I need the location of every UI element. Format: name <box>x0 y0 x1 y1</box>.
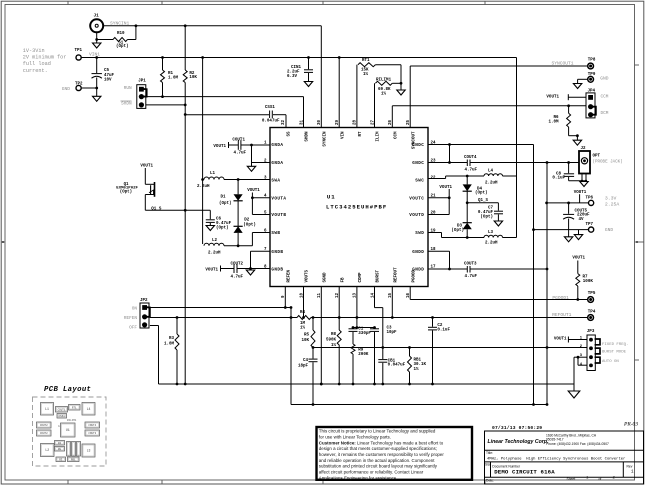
svg-text:REFOUT1: REFOUT1 <box>552 312 572 318</box>
svg-text:30.1K: 30.1K <box>414 363 427 367</box>
svg-text:0.47uF: 0.47uF <box>478 211 494 215</box>
svg-text:2V minimum for: 2V minimum for <box>23 55 67 61</box>
svg-text:L1: L1 <box>210 172 216 176</box>
svg-text:FB: FB <box>341 277 345 283</box>
svg-text:L3: L3 <box>87 449 91 453</box>
svg-text:C2: C2 <box>437 324 443 328</box>
svg-text:1V-3Vin: 1V-3Vin <box>23 48 45 54</box>
svg-text:4V: 4V <box>579 218 585 222</box>
svg-text:4.7uF: 4.7uF <box>465 169 478 173</box>
svg-text:R10: R10 <box>117 32 125 36</box>
svg-text:JP3: JP3 <box>587 330 595 334</box>
svg-text:1: 1 <box>631 471 634 475</box>
svg-text:COUT4: COUT4 <box>88 424 96 427</box>
svg-text:SHDN: SHDN <box>306 131 310 142</box>
svg-text:1%: 1% <box>300 327 306 331</box>
svg-text:for use with Linear Technology: for use with Linear Technology parts. <box>319 434 391 439</box>
svg-text:0.047uF: 0.047uF <box>388 364 406 368</box>
svg-text:C5: C5 <box>104 69 110 73</box>
svg-text:J2: J2 <box>581 147 587 151</box>
svg-text:SWA: SWA <box>271 179 280 184</box>
svg-text:(Opt): (Opt) <box>243 222 256 227</box>
svg-text:GNDB: GNDB <box>271 250 283 255</box>
svg-text:JP4: JP4 <box>588 89 596 93</box>
svg-text:CSS1: CSS1 <box>265 106 276 110</box>
svg-text:R8: R8 <box>331 333 337 337</box>
svg-text:VOUT1: VOUT1 <box>205 269 218 273</box>
svg-text:2.25A: 2.25A <box>605 201 620 207</box>
svg-text:4.7uF: 4.7uF <box>465 275 478 279</box>
svg-text:8: 8 <box>264 266 267 270</box>
svg-text:COMP: COMP <box>359 272 363 283</box>
svg-text:(Opt): (Opt) <box>480 214 493 219</box>
svg-text:CCM: CCM <box>601 95 609 100</box>
svg-text:FIXED FREQ.: FIXED FREQ. <box>602 343 628 347</box>
svg-text:affect circuit performance or: affect circuit performance or reliabilit… <box>319 470 424 475</box>
svg-text:GND: GND <box>605 227 614 233</box>
svg-text:TP1: TP1 <box>75 49 83 53</box>
svg-text:VOUTC: VOUTC <box>409 197 424 202</box>
svg-text:full load: full load <box>23 61 51 67</box>
svg-text:L1: L1 <box>45 407 49 411</box>
svg-text:RB1: RB1 <box>71 458 76 461</box>
svg-text:SWB: SWB <box>271 231 280 236</box>
svg-text:VOUT1: VOUT1 <box>554 337 567 341</box>
svg-text:VOUTS: VOUTS <box>306 269 310 282</box>
svg-text:47uF: 47uF <box>104 74 115 78</box>
svg-text:1.0M: 1.0M <box>168 76 179 80</box>
svg-text:3: 3 <box>264 177 267 181</box>
svg-text:REFOUT: REFOUT <box>395 267 399 283</box>
svg-text:RUN: RUN <box>124 86 132 91</box>
svg-text:JP2: JP2 <box>140 299 148 303</box>
svg-text:SWD: SWD <box>415 231 424 236</box>
svg-text:1.0M: 1.0M <box>548 121 559 125</box>
svg-text:0.047uF: 0.047uF <box>262 119 280 123</box>
svg-text:R2: R2 <box>189 72 195 76</box>
svg-text:GNDA: GNDA <box>271 161 283 166</box>
svg-text:JP1: JP1 <box>138 80 146 84</box>
svg-text:OPT: OPT <box>593 155 601 159</box>
svg-text:VOUT1: VOUT1 <box>574 191 587 195</box>
svg-text:COUT2: COUT2 <box>40 424 48 427</box>
svg-text:TP2: TP2 <box>75 82 83 86</box>
svg-text:L2: L2 <box>212 239 218 243</box>
svg-text:1%: 1% <box>381 92 387 96</box>
svg-text:COUT4: COUT4 <box>464 156 477 160</box>
svg-text:PR-03: PR-03 <box>623 422 638 428</box>
svg-text:VOUT1: VOUT1 <box>140 164 153 168</box>
svg-text:SYNCIN1: SYNCIN1 <box>110 21 130 27</box>
svg-text:L2: L2 <box>45 448 49 452</box>
svg-text:R4: R4 <box>58 442 62 445</box>
svg-text:0.47uF: 0.47uF <box>216 222 232 226</box>
svg-text:CIN1: CIN1 <box>291 66 302 70</box>
svg-text:6.3V: 6.3V <box>287 75 298 79</box>
svg-text:CCM: CCM <box>395 131 399 139</box>
svg-text:SYNCIN: SYNCIN <box>324 131 328 147</box>
svg-text:RILIM1: RILIM1 <box>376 78 392 82</box>
svg-text:PGOOD: PGOOD <box>412 269 416 282</box>
svg-text:U1: U1 <box>66 429 70 433</box>
svg-text:RB1: RB1 <box>414 358 422 362</box>
svg-text:R6: R6 <box>553 116 559 120</box>
svg-text:TP9: TP9 <box>588 73 596 77</box>
svg-text:BURST: BURST <box>377 269 381 282</box>
svg-text:1.0M: 1.0M <box>164 343 175 347</box>
svg-text:Linear Technology Corp.: Linear Technology Corp. <box>488 439 549 445</box>
svg-text:Rev: Rev <box>627 464 633 468</box>
svg-text:1%: 1% <box>414 368 420 372</box>
svg-text:2.2uH: 2.2uH <box>197 185 210 189</box>
svg-text:C4: C4 <box>303 359 309 363</box>
svg-text:15K: 15K <box>361 69 369 73</box>
svg-text:R1: R1 <box>168 72 174 76</box>
svg-text:(Opt): (Opt) <box>116 44 129 49</box>
svg-text:VIN: VIN <box>341 131 345 139</box>
svg-text:ILIM: ILIM <box>377 131 381 142</box>
svg-text:VOUT1: VOUT1 <box>546 96 559 100</box>
svg-text:10V: 10V <box>104 79 112 83</box>
svg-text:CSS1: CSS1 <box>59 415 66 418</box>
svg-text:RT: RT <box>359 131 363 137</box>
svg-text:SYNCOUT1: SYNCOUT1 <box>552 61 574 67</box>
svg-text:2.2uF: 2.2uF <box>287 71 300 75</box>
svg-text:VOUT1: VOUT1 <box>439 186 452 190</box>
svg-text:COUT1: COUT1 <box>232 138 245 142</box>
svg-text:GNDA: GNDA <box>271 143 283 148</box>
svg-text:R4: R4 <box>300 311 306 315</box>
svg-text:ON: ON <box>132 307 138 312</box>
svg-text:R9: R9 <box>358 349 364 353</box>
svg-text:U1: U1 <box>327 194 336 201</box>
svg-text:GND: GND <box>62 86 71 92</box>
svg-text:(Opt): (Opt) <box>219 201 232 206</box>
svg-text:COUT3: COUT3 <box>88 432 96 435</box>
svg-text:0.1uF: 0.1uF <box>437 328 450 332</box>
svg-text:Phone: (408)432-1900 Fax: (408: Phone: (408)432-1900 Fax: (408)434-0507 <box>546 442 609 446</box>
svg-text:4.7uF: 4.7uF <box>231 276 244 280</box>
svg-text:GNDD: GNDD <box>412 250 424 255</box>
svg-text:GNDB: GNDB <box>271 268 283 273</box>
svg-text:C6: C6 <box>216 218 222 222</box>
svg-text:(Opt): (Opt) <box>475 191 488 196</box>
svg-text:R7: R7 <box>583 275 589 279</box>
svg-text:L4: L4 <box>488 170 494 174</box>
svg-text:substitution and printed circu: substitution and printed circuit board l… <box>319 464 438 469</box>
svg-text:TP7: TP7 <box>586 223 594 227</box>
svg-text:REFEN: REFEN <box>124 316 138 321</box>
svg-text:D3: D3 <box>457 225 463 229</box>
svg-text:VIN1: VIN1 <box>89 52 100 58</box>
svg-text:COUT1: COUT1 <box>58 408 66 411</box>
svg-text:design a circuit that meets cu: design a circuit that meets customer-sup… <box>319 446 437 451</box>
svg-text:4MHz, Polyphase High Efficien: 4MHz, Polyphase High Efficiency Synchron… <box>487 457 625 462</box>
svg-text:L4: L4 <box>87 407 91 411</box>
svg-text:10K: 10K <box>301 339 309 343</box>
svg-text:Sheet: Sheet <box>567 477 576 481</box>
svg-text:D2: D2 <box>244 219 250 223</box>
svg-text:4.7uF: 4.7uF <box>234 151 247 155</box>
svg-text:TP4: TP4 <box>588 310 596 314</box>
svg-text:VOUT1: VOUT1 <box>247 189 260 193</box>
svg-text:SGND: SGND <box>324 272 328 283</box>
svg-text:OFF: OFF <box>129 326 137 331</box>
svg-text:590K: 590K <box>326 339 337 343</box>
svg-text:RT1: RT1 <box>72 406 77 409</box>
svg-text:C3: C3 <box>387 326 393 330</box>
svg-text:AUTO ON: AUTO ON <box>602 360 619 364</box>
svg-text:of: of <box>599 477 602 481</box>
svg-text:330pF: 330pF <box>358 332 371 336</box>
svg-text:REFEN: REFEN <box>288 269 292 282</box>
svg-text:10K: 10K <box>189 76 197 80</box>
svg-text:J1: J1 <box>94 14 100 19</box>
svg-text:SWC: SWC <box>415 179 424 184</box>
svg-text:07/31/13 07:50:29: 07/31/13 07:50:29 <box>492 425 542 431</box>
svg-text:2.2uH: 2.2uH <box>208 252 221 256</box>
svg-text:R3: R3 <box>169 337 175 341</box>
svg-text:2.2uH: 2.2uH <box>485 242 498 246</box>
svg-text:RILIM1: RILIM1 <box>67 419 77 422</box>
svg-text:1%: 1% <box>363 73 369 77</box>
svg-text:10pF: 10pF <box>387 331 398 335</box>
svg-text:COUT2: COUT2 <box>231 263 244 267</box>
svg-text:VOUT1: VOUT1 <box>572 257 585 261</box>
svg-text:Date:: Date: <box>486 479 494 483</box>
svg-text:SS: SS <box>288 131 292 137</box>
svg-text:GND: GND <box>600 76 609 82</box>
svg-text:however, it remains the custom: however, it remains the customers respon… <box>319 452 445 457</box>
svg-text:TP6: TP6 <box>586 196 594 200</box>
svg-text:Size: Size <box>485 463 491 467</box>
svg-text:TP8: TP8 <box>588 59 596 63</box>
svg-text:69.8K: 69.8K <box>378 88 391 92</box>
svg-text:DEMO CIRCUIT 616A: DEMO CIRCUIT 616A <box>494 468 555 475</box>
svg-text:COUT2: COUT2 <box>40 432 48 435</box>
svg-text:(PROBE JACK): (PROBE JACK) <box>593 160 623 165</box>
svg-text:COUT3: COUT3 <box>464 263 477 267</box>
svg-text:LTC3425EUH#PBF: LTC3425EUH#PBF <box>326 203 387 210</box>
svg-text:BURST MODE: BURST MODE <box>602 351 627 355</box>
svg-text:VOUTB: VOUTB <box>271 213 286 218</box>
svg-text:D1: D1 <box>221 196 227 200</box>
svg-text:3.3V: 3.3V <box>605 195 617 201</box>
svg-text:Title:: Title: <box>486 451 493 455</box>
svg-text:and reliable operation in the: and reliable operation in the actual app… <box>319 458 435 463</box>
svg-text:(Opt): (Opt) <box>216 225 229 230</box>
svg-text:R8: R8 <box>58 448 62 451</box>
svg-text:PCB Layout: PCB Layout <box>44 386 91 394</box>
svg-text:(Opt): (Opt) <box>451 228 464 233</box>
svg-text:2.2uH: 2.2uH <box>485 182 498 186</box>
svg-text:18pF: 18pF <box>298 365 309 369</box>
svg-text:0.1uF: 0.1uF <box>552 177 565 181</box>
svg-text:1M: 1M <box>300 322 306 326</box>
svg-text:This circuit is proprietary to: This circuit is proprietary to Linear Te… <box>319 429 436 434</box>
svg-text:RT1: RT1 <box>362 59 370 63</box>
svg-text:VOUTD: VOUTD <box>409 213 424 218</box>
svg-text:SHDN: SHDN <box>121 102 132 107</box>
svg-text:R3: R3 <box>59 458 63 461</box>
svg-text:VOUTA: VOUTA <box>271 197 286 202</box>
svg-text:DCM: DCM <box>601 111 609 116</box>
svg-text:100K: 100K <box>583 280 594 284</box>
svg-text:1: 1 <box>58 425 60 428</box>
svg-text:(Opt): (Opt) <box>120 189 132 194</box>
svg-text:200K: 200K <box>358 353 369 357</box>
svg-text:current.: current. <box>23 68 48 74</box>
svg-text:PGOOD1: PGOOD1 <box>552 295 569 301</box>
svg-text:SYNCOUT: SYNCOUT <box>412 131 416 149</box>
svg-text:Customer Notice: Linear Techno: Customer Notice: Linear Technology has m… <box>319 440 444 445</box>
svg-text:R5: R5 <box>304 334 310 338</box>
svg-text:Applications Engineering for a: Applications Engineering for assistance. <box>319 475 398 480</box>
svg-text:C7: C7 <box>488 207 494 211</box>
svg-text:GNDC: GNDC <box>412 161 424 166</box>
svg-text:VOUT1: VOUT1 <box>213 145 226 149</box>
svg-text:TP5: TP5 <box>588 292 596 296</box>
svg-text:L3: L3 <box>488 231 494 235</box>
